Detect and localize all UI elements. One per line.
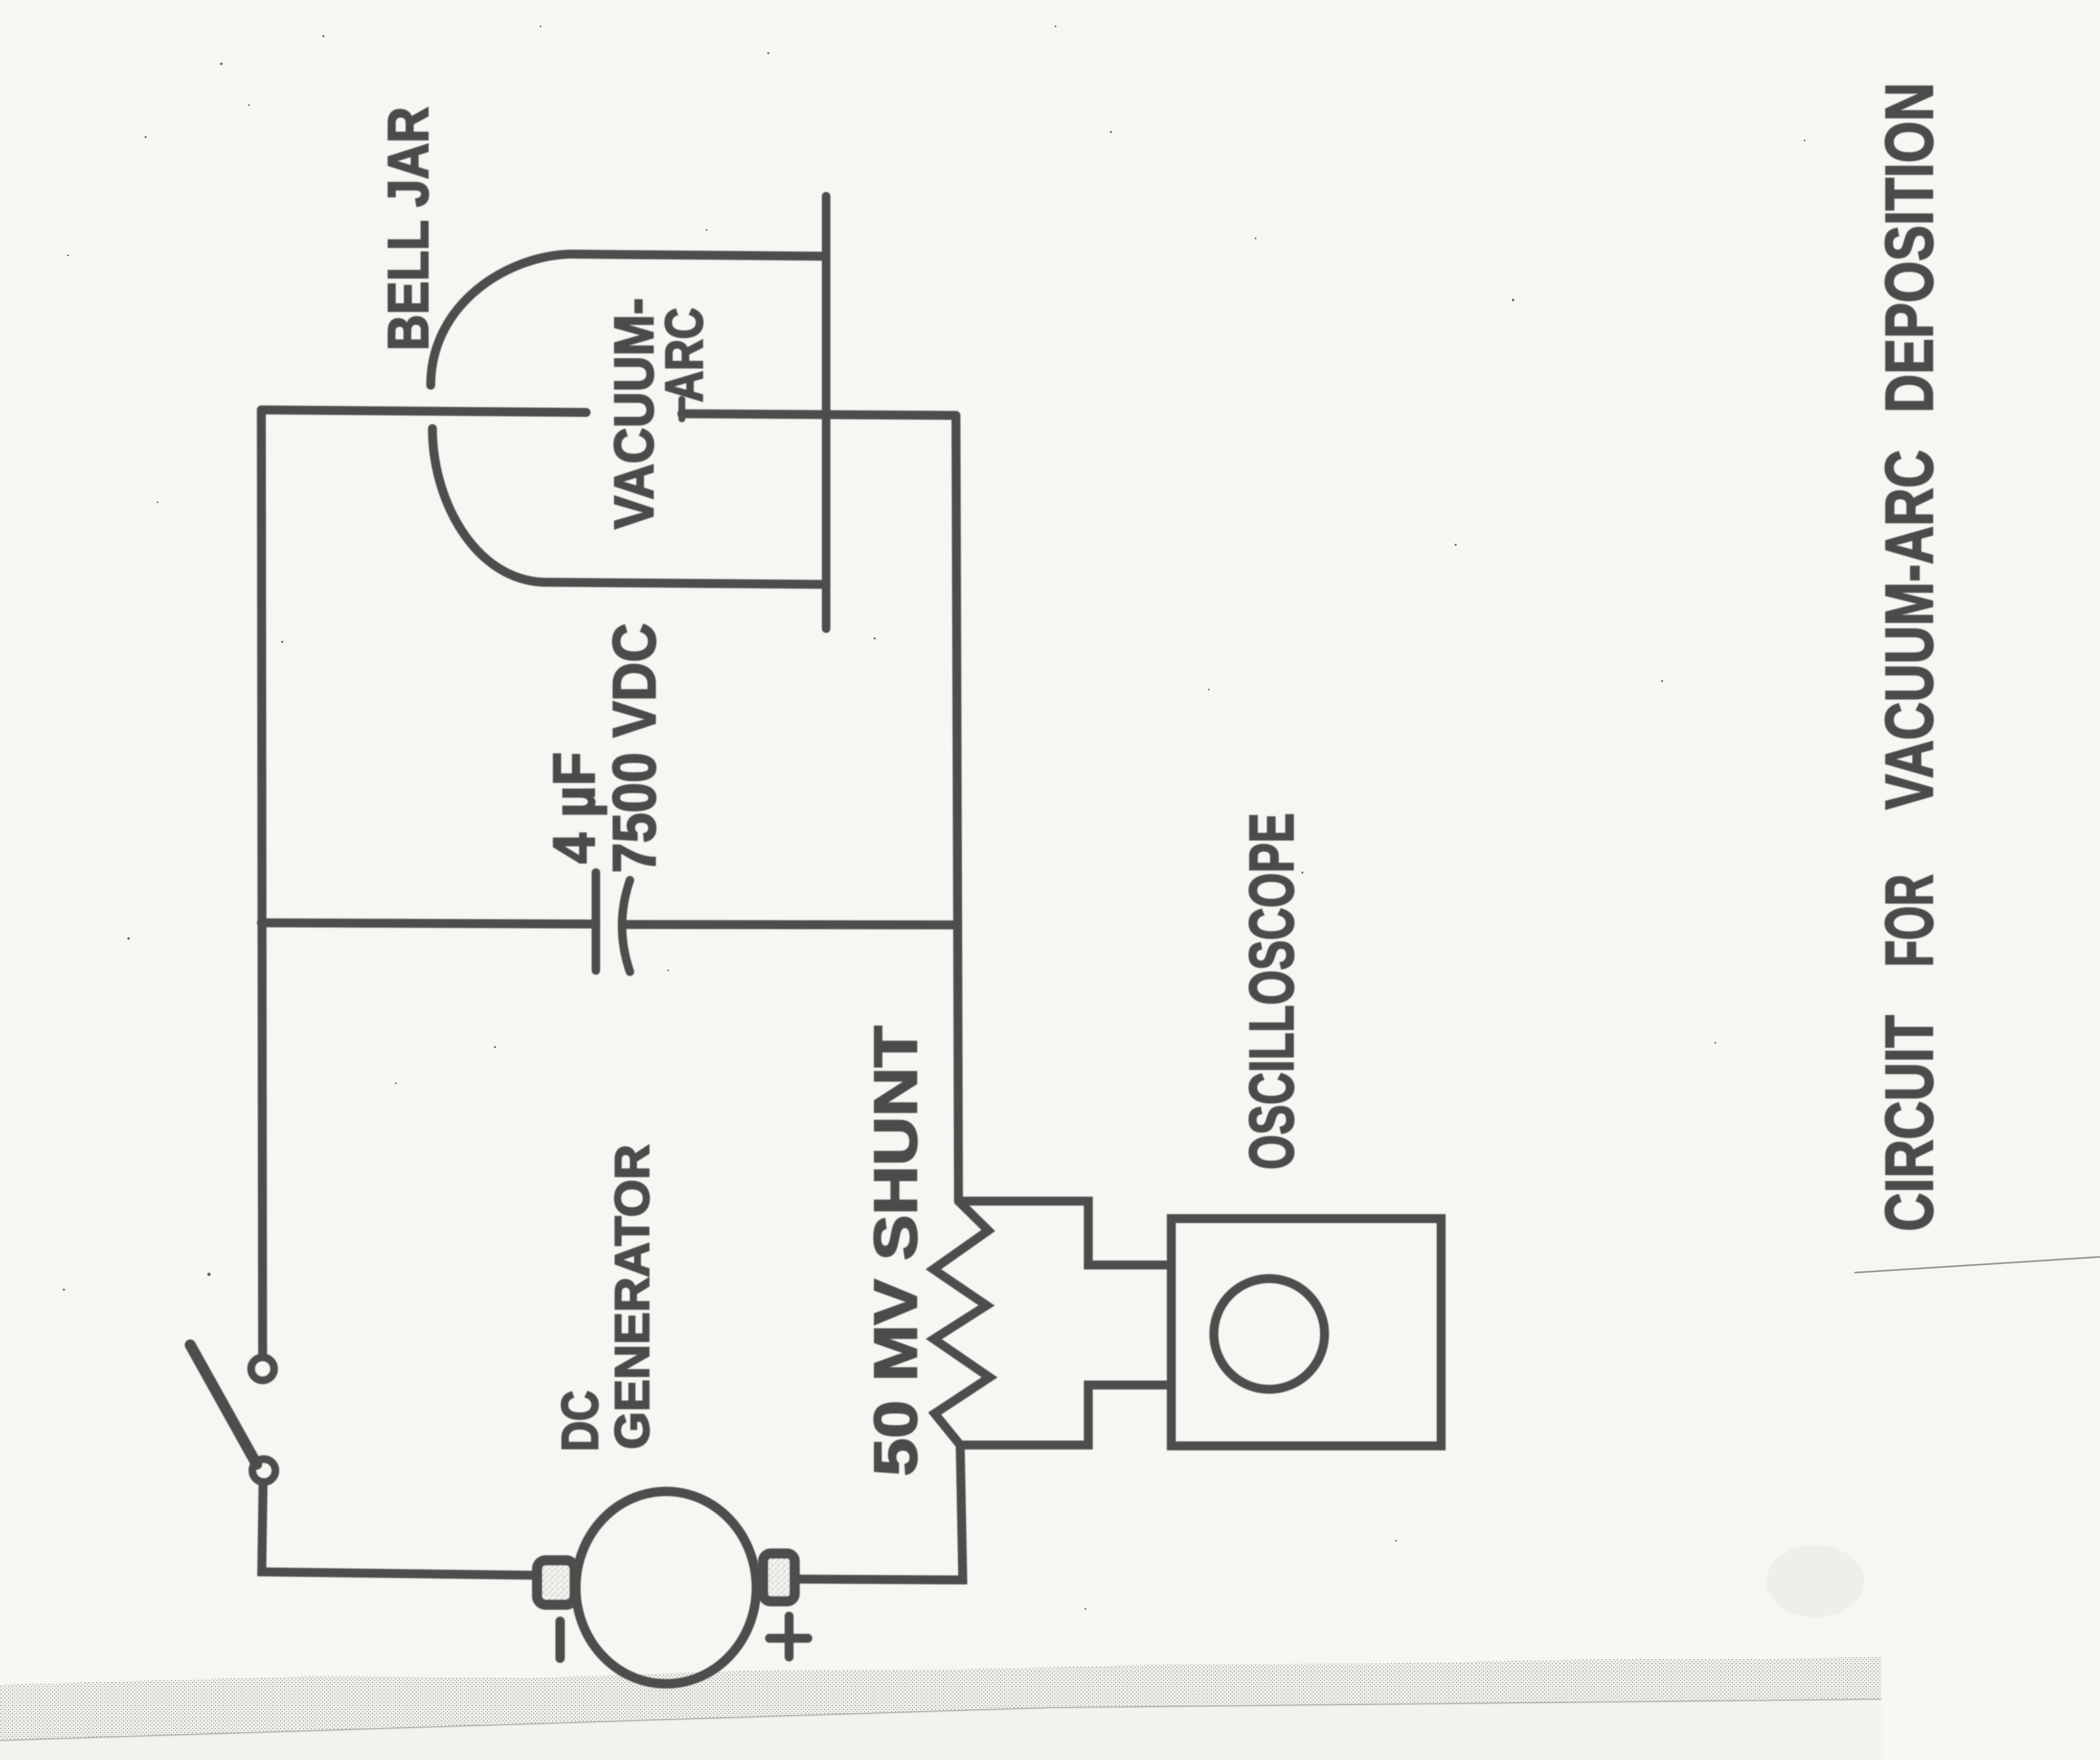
svg-text:GENERATOR: GENERATOR — [605, 1145, 659, 1449]
svg-text:CIRCUIT: CIRCUIT — [1872, 1015, 1947, 1231]
wire: oscilloscope lower tap — [960, 1385, 1167, 1445]
svg-text:ARC: ARC — [655, 308, 714, 402]
page edge thin line under band — [0, 1700, 1881, 1741]
generator plus polarity mark — [770, 1616, 808, 1657]
electrode tip tick on right electrode — [678, 399, 685, 419]
generator G1 body circle — [576, 1491, 756, 1684]
faint diagonal page edge line right of drawing — [1854, 1257, 2100, 1273]
bell jar bottom wall — [547, 582, 826, 584]
svg-text:50 MV SHUNT: 50 MV SHUNT — [862, 1026, 930, 1476]
generator G1 positive terminal block — [763, 1554, 795, 1601]
area below page edge line — [0, 1700, 1881, 1760]
svg-text:FOR: FOR — [1872, 874, 1947, 967]
oscilloscope box outline — [1171, 1219, 1441, 1446]
ink specks — [63, 26, 1900, 1610]
svg-text:BELL JAR: BELL JAR — [377, 107, 440, 351]
switch S1 upper contact circle — [251, 1357, 274, 1380]
wire: oscilloscope upper tap — [958, 1201, 1167, 1265]
wire: top side / left vacuum-arc electrode feed — [261, 410, 586, 412]
svg-text:VACUUM-ARC: VACUUM-ARC — [1872, 450, 1947, 810]
svg-text:DEPOSITION: DEPOSITION — [1872, 83, 1947, 413]
oscilloscope CRT screen circle — [1214, 1279, 1325, 1389]
wire: capacitor branch right segment — [625, 924, 958, 925]
wire: bottom side right segment from generator + terminal — [798, 1445, 963, 1580]
bell jar baseplate bar — [822, 196, 830, 629]
bell jar dome upper arc — [431, 254, 570, 385]
bell jar dome lower arc — [432, 429, 547, 582]
switch S1 lever arm — [190, 1345, 257, 1464]
bottom page-edge shadow band (halftone) — [0, 1657, 1881, 1740]
capacitor C1 left plate — [592, 873, 600, 970]
faint gray smudge patch lower right — [1766, 1545, 1864, 1617]
electrode: right vacuum-arc electrode feed-through — [682, 414, 956, 415]
svg-text:4 µF: 4 µF — [541, 752, 607, 864]
generator minus polarity mark — [555, 1621, 565, 1658]
shunt resistor R1 zigzag — [933, 1201, 990, 1445]
wire: left vertical side of loop — [261, 410, 263, 1354]
wire: capacitor branch left segment — [261, 923, 596, 924]
bell jar top wall — [570, 254, 826, 256]
svg-text:OSCILLOSCOPE: OSCILLOSCOPE — [1237, 813, 1307, 1170]
capacitor C1 right curved plate — [622, 880, 630, 972]
svg-text:DC: DC — [551, 1391, 609, 1451]
svg-text:7500 VDC: 7500 VDC — [601, 623, 668, 873]
switch S1 lower contact circle — [252, 1459, 275, 1482]
wire: from lower switch contact down to bottom-left corner — [262, 1485, 535, 1575]
generator G1 negative terminal block — [537, 1560, 575, 1605]
wire: right vertical side of loop — [956, 415, 958, 1201]
